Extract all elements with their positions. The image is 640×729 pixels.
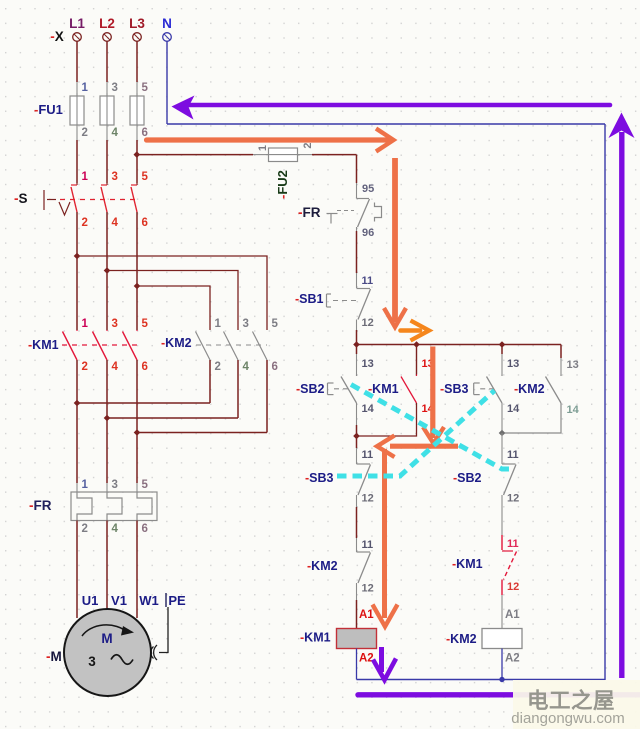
svg-text:12: 12	[362, 493, 374, 505]
svg-text:96: 96	[362, 227, 374, 239]
svg-text:6: 6	[142, 217, 148, 229]
svg-text:3: 3	[112, 479, 118, 491]
junction bus at SB2	[353, 341, 360, 348]
svg-text:11: 11	[507, 538, 519, 550]
svg-text:3: 3	[112, 318, 118, 330]
fuse FU1 pole 1	[70, 93, 84, 140]
svg-text:V1: V1	[111, 593, 127, 608]
start button SB3 NO contact	[487, 375, 503, 404]
svg-text:14: 14	[362, 403, 375, 415]
flow arrow purple top (to N, pointing left)	[188, 103, 610, 108]
svg-text:N: N	[162, 16, 172, 31]
wire bus to KM2 aux	[560, 345, 562, 359]
wire FU2 to FR contact	[298, 154, 313, 156]
wire FR to motor V1	[106, 521, 108, 611]
wire SB3 to node	[501, 403, 503, 433]
svg-text:-KM2: -KM2	[307, 559, 338, 573]
svg-text:-KM1: -KM1	[452, 557, 483, 571]
svg-text:2: 2	[215, 361, 221, 373]
wire switch S to contactor KM1 pole 1	[76, 212, 78, 330]
wire SB2 to node	[356, 403, 358, 425]
svg-text:13: 13	[507, 358, 519, 370]
svg-text:2: 2	[82, 361, 88, 373]
contactor KM2 interlock NC contact	[357, 552, 371, 583]
wire switch S to contactor KM1 pole 2	[106, 212, 108, 330]
svg-text:diangongwu.com: diangongwu.com	[511, 710, 624, 727]
thermal relay FR box	[71, 492, 157, 521]
switch S pole 3	[131, 183, 137, 212]
svg-text:2: 2	[82, 127, 88, 139]
stop button SB1 NC contact	[357, 289, 371, 320]
flow arrow orange horizontal top (pointing right)	[147, 137, 389, 142]
watermark box	[513, 680, 640, 729]
svg-text:4: 4	[112, 217, 119, 229]
thermal relay FR heater element 3	[137, 492, 152, 521]
wire KM1 pole 2 output	[106, 360, 108, 418]
svg-text:-KM1: -KM1	[300, 631, 331, 645]
contactor KM2 main contact pole 3	[253, 332, 268, 361]
junction seal-in node	[353, 433, 360, 440]
svg-text:6: 6	[272, 361, 278, 373]
svg-text:3: 3	[112, 82, 118, 94]
svg-text:-SB3: -SB3	[440, 382, 469, 396]
svg-text:-SB2: -SB2	[453, 471, 482, 485]
svg-text:A1: A1	[505, 609, 520, 621]
fuse FU1 pole 3	[130, 93, 144, 140]
motor PE clamp symbol	[154, 645, 157, 660]
svg-text:6: 6	[142, 127, 148, 139]
svg-text:A2: A2	[505, 653, 520, 665]
svg-text:-KM2: -KM2	[161, 336, 192, 350]
svg-text:5: 5	[142, 318, 149, 330]
fuse FU2	[269, 148, 298, 162]
wire KM2 pole 1 output	[209, 360, 211, 403]
motor M circle	[64, 609, 151, 696]
svg-text:1: 1	[82, 171, 89, 183]
svg-text:-M: -M	[46, 649, 62, 664]
flow arrow orange vertical (pointing down)	[392, 158, 398, 322]
svg-text:L2: L2	[99, 16, 115, 31]
svg-text:-KM2: -KM2	[446, 632, 477, 646]
svg-text:6: 6	[142, 523, 148, 535]
svg-text:-SB1: -SB1	[295, 292, 324, 306]
contactor KM1 aux NO contact	[401, 375, 417, 404]
svg-text:3: 3	[243, 318, 249, 330]
switch S pole 2	[101, 183, 107, 212]
flow arrow purple right vertical (pointing up)	[619, 132, 624, 678]
mechanical link cyan SB2 to SB2 NC	[351, 385, 513, 470]
terminal L3 circle	[133, 33, 142, 42]
svg-text:3: 3	[112, 171, 118, 183]
svg-text:1: 1	[82, 318, 89, 330]
switch S linkage dashed	[60, 199, 137, 201]
start button SB2 NO contact	[341, 375, 357, 404]
wire KM1 pole 1 output	[76, 360, 78, 403]
svg-text:L1: L1	[69, 16, 85, 31]
wire KM1 aux to node	[357, 403, 417, 436]
wire bus to SB2	[356, 345, 358, 355]
wire phase L3 terminal to fuse FU1	[136, 41, 138, 82]
junction N at KM2 coil	[499, 677, 504, 682]
wire control bus horizontal	[357, 344, 562, 346]
svg-text:6: 6	[142, 361, 148, 373]
svg-text:-SB3: -SB3	[305, 471, 334, 485]
svg-text:4: 4	[112, 361, 119, 373]
junction phase branch to KM2 pole	[134, 283, 141, 290]
junction merge phase 3	[134, 429, 141, 436]
wire L2 branch to KM2 pole 2	[107, 271, 238, 331]
svg-text:-X: -X	[50, 29, 64, 44]
FR release dashed link	[337, 210, 354, 212]
button SB3 NC contact	[357, 464, 371, 495]
contactor KM1 interlock NC contact	[502, 551, 517, 580]
wire to thermal relay FR pole 2	[106, 418, 108, 483]
flow arrow purple bottom horizontal	[358, 692, 640, 697]
wire N bottom to coils	[357, 679, 606, 681]
wire KM2 aux to node	[502, 403, 561, 433]
svg-text:A1: A1	[359, 609, 374, 621]
junction reverse node	[499, 430, 506, 437]
motor M terminal labels U1 V1 W1 PE	[82, 593, 186, 608]
flow arrow orange long down to KM1 coil	[382, 449, 387, 618]
wire phase L2 terminal to fuse FU1	[106, 41, 108, 82]
flow arrow orange small right	[401, 328, 421, 333]
wire KM2 pole 2 output	[237, 360, 239, 418]
junction control circuit tap on L3	[134, 151, 141, 158]
contactor KM1 main contact pole 1	[63, 330, 78, 360]
wire fuse FU1 to switch S pole 2	[106, 140, 108, 183]
svg-text:11: 11	[362, 449, 374, 461]
wire bus to KM1 aux	[416, 345, 418, 375]
motor rotation arrow	[82, 625, 127, 636]
flow arrow orange down through KM1 aux	[430, 347, 435, 439]
wire KM2 coil to N bus	[501, 649, 503, 680]
thermal relay FR heater element 1	[77, 492, 92, 521]
contactor coil KM2	[482, 629, 522, 649]
svg-text:95: 95	[362, 183, 374, 195]
svg-text:5: 5	[142, 171, 149, 183]
wire KM1 pole 3 output	[136, 360, 138, 433]
svg-text:4: 4	[112, 127, 119, 139]
svg-text:12: 12	[507, 581, 519, 593]
contactor KM1 linkage dashed	[62, 344, 137, 346]
svg-text:1: 1	[257, 145, 269, 151]
wire merge phase 1	[77, 402, 210, 404]
mechanical link cyan SB3 to SB3 NC	[337, 391, 495, 477]
start button SB3 dashed link	[480, 388, 494, 390]
flow arrow orange left	[390, 444, 458, 449]
svg-text:2: 2	[82, 523, 88, 535]
flow arrow purple down at KM1 coil	[379, 647, 384, 672]
stop button SB1 dashed link	[333, 300, 356, 302]
fuse FU1 pole 2	[100, 93, 114, 140]
svg-text:1: 1	[215, 318, 222, 330]
svg-text:1: 1	[82, 479, 89, 491]
motor AC tilde	[111, 655, 133, 665]
contactor KM2 aux NO contact	[546, 375, 562, 404]
svg-text:W1: W1	[139, 593, 159, 608]
svg-text:4: 4	[112, 523, 119, 535]
contactor KM2 linkage dashed	[196, 344, 267, 346]
svg-text:-KM1: -KM1	[28, 338, 59, 352]
svg-text:11: 11	[507, 449, 519, 461]
svg-text:14: 14	[567, 404, 580, 416]
svg-text:L3: L3	[129, 16, 145, 31]
svg-text:5: 5	[142, 82, 149, 94]
svg-text:-FU2: -FU2	[275, 170, 290, 199]
contactor KM2 main contact pole 2	[224, 332, 239, 361]
wire switch S to contactor KM1 pole 3	[136, 212, 138, 330]
svg-text:A2: A2	[359, 653, 374, 665]
wire SB3 NC to KM2 NC	[356, 495, 358, 507]
svg-text:12: 12	[362, 317, 374, 329]
svg-text:-FR: -FR	[29, 498, 52, 513]
contactor KM1 main contact pole 2	[93, 330, 108, 360]
wire to thermal relay FR pole 3	[136, 433, 138, 484]
svg-text:-FU1: -FU1	[34, 102, 63, 117]
FR NC contact	[357, 197, 382, 227]
wire node to SB2 NC	[501, 433, 503, 464]
wire KM2 pole 3 output	[266, 360, 268, 433]
svg-text:12: 12	[362, 583, 374, 595]
junction phase branch to KM2 pole	[74, 253, 81, 260]
contactor coil KM1	[337, 629, 377, 649]
start button SB2 actuator	[328, 383, 334, 395]
svg-text:M: M	[101, 631, 112, 646]
wire fuse FU1 to switch S pole 3	[136, 140, 138, 183]
stop button SB1 actuator	[327, 294, 332, 307]
wire merge phase 3	[137, 432, 267, 434]
wire fuse FU1 to switch S pole 1	[76, 140, 78, 183]
FR thermal release symbol	[327, 213, 338, 215]
wire KM1 coil to N bus	[356, 649, 358, 680]
svg-text:4: 4	[243, 361, 250, 373]
contactor KM1 main contact pole 3	[123, 330, 138, 360]
junction merge phase 1	[74, 400, 81, 407]
junction bus at KM1 aux	[413, 341, 420, 348]
wire SB2 NC to KM1 NC	[501, 495, 503, 535]
svg-text:11: 11	[362, 275, 374, 287]
wire phase L1 terminal to fuse FU1	[76, 41, 78, 82]
wire N terminal down	[166, 41, 168, 124]
wire N horizontal top	[167, 123, 605, 125]
thermal relay FR heater element 2	[107, 492, 122, 521]
svg-text:-S: -S	[14, 191, 28, 206]
wire L1 branch to KM2 pole 3 (phase swap)	[77, 256, 267, 330]
wire FR to motor U1	[76, 521, 78, 619]
wire bus to SB3	[501, 345, 503, 355]
wire KM2 NC to KM1 coil	[356, 583, 358, 600]
terminal N circle	[163, 33, 172, 42]
svg-text:14: 14	[507, 403, 520, 415]
wire KM1 NC to KM2 coil	[501, 580, 503, 596]
wire node to SB3 NC	[356, 436, 358, 448]
wire control tap to fuse FU2	[137, 154, 253, 156]
svg-text:13: 13	[567, 359, 579, 371]
wire FR to motor W1	[136, 521, 138, 619]
wire SB1 to control bus	[356, 320, 358, 331]
wire PE down to motor frame	[159, 607, 168, 653]
contactor KM2 main contact pole 1	[196, 332, 211, 361]
svg-text:-KM2: -KM2	[514, 382, 545, 396]
junction merge phase 2	[104, 415, 111, 422]
junction bus at SB3	[499, 341, 506, 348]
switch S pole 1	[71, 183, 77, 212]
svg-text:12: 12	[507, 493, 519, 505]
wire N right vertical	[604, 124, 606, 680]
svg-text:PE: PE	[168, 593, 186, 608]
wire merge phase 2	[107, 417, 238, 419]
switch S operator handle	[44, 190, 70, 215]
junction phase branch to KM2 pole	[104, 267, 111, 274]
svg-text:5: 5	[142, 479, 149, 491]
terminal L1 circle	[73, 33, 82, 42]
svg-text:U1: U1	[82, 593, 99, 608]
svg-text:-SB2: -SB2	[296, 382, 325, 396]
svg-text:11: 11	[362, 539, 374, 551]
svg-text:5: 5	[272, 318, 279, 330]
svg-text:2: 2	[302, 142, 314, 148]
wire L3 branch to KM2 pole 1 (phase swap)	[137, 286, 210, 330]
wire to thermal relay FR pole 1	[76, 403, 78, 483]
start button SB2 dashed link	[334, 388, 349, 390]
wire FR contact to SB1	[356, 227, 358, 231]
svg-text:3: 3	[88, 654, 96, 669]
start button SB3 actuator	[474, 383, 480, 395]
svg-text:2: 2	[82, 217, 88, 229]
svg-text:13: 13	[362, 358, 374, 370]
svg-text:1: 1	[82, 82, 89, 94]
svg-text:-FR: -FR	[298, 205, 321, 220]
terminal L2 circle	[103, 33, 112, 42]
button SB2 NC contact	[502, 464, 516, 495]
